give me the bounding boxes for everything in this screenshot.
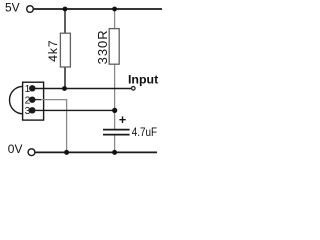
wire: R1 bottom stub — [64, 67, 66, 89]
junction: 0V rail / C1 — [112, 150, 117, 155]
wire: pin2 of U1 to 0V rail (horizontal then vertical, grey) — [40, 100, 67, 153]
resistor R1 body (4k7) — [60, 33, 70, 67]
wire: capacitor C1 to 0V rail (grey) — [114, 135, 116, 153]
svg-text:3: 3 — [25, 106, 31, 117]
junction: R1 / pin1 wire — [62, 86, 67, 91]
sensor U1 dome arc — [10, 86, 23, 113]
capacitor C1 top plate — [103, 129, 130, 131]
svg-text:330R: 330R — [95, 29, 110, 64]
svg-text:2: 2 — [25, 96, 31, 107]
svg-text:4k7: 4k7 — [46, 40, 60, 62]
svg-text:+: + — [119, 113, 126, 127]
svg-text:4.7uF: 4.7uF — [132, 125, 157, 139]
sensor U1 body — [23, 82, 44, 120]
terminal 5V — [27, 6, 34, 13]
svg-text:0V: 0V — [8, 142, 23, 156]
svg-text:Input: Input — [128, 73, 158, 87]
svg-text:5V: 5V — [5, 1, 20, 15]
wire: U1 pin1 to Input terminal — [32, 88, 131, 90]
junction: top rail / R2 — [112, 7, 117, 12]
capacitor C1 bottom plate — [103, 134, 130, 136]
svg-text:1: 1 — [25, 84, 31, 95]
sensor U1 pin 3 pad — [29, 107, 35, 113]
wire: pin2 segment inside U1 body — [32, 99, 41, 101]
wire: 0V bottom rail — [35, 151, 157, 153]
resistor R2 body (330R) — [109, 29, 119, 65]
junction: pin3 wire / C1 node — [112, 108, 117, 113]
junction: top rail / R1 — [63, 7, 68, 12]
junction: 0V rail / pin2 wire — [64, 150, 69, 155]
terminal 0V — [28, 149, 35, 156]
wire: R2 top stub (grey) — [114, 9, 116, 29]
sensor U1 pin 1 pad — [29, 85, 35, 91]
wire: R1 top stub — [64, 9, 66, 34]
terminal Input — [132, 87, 136, 91]
wire: U1 pin3 to C1 node — [32, 109, 114, 111]
wire: R2 bottom to capacitor C1 (grey) — [114, 64, 116, 130]
wire: 5V top rail — [33, 8, 162, 10]
sensor U1 pin 2 pad — [29, 97, 35, 103]
